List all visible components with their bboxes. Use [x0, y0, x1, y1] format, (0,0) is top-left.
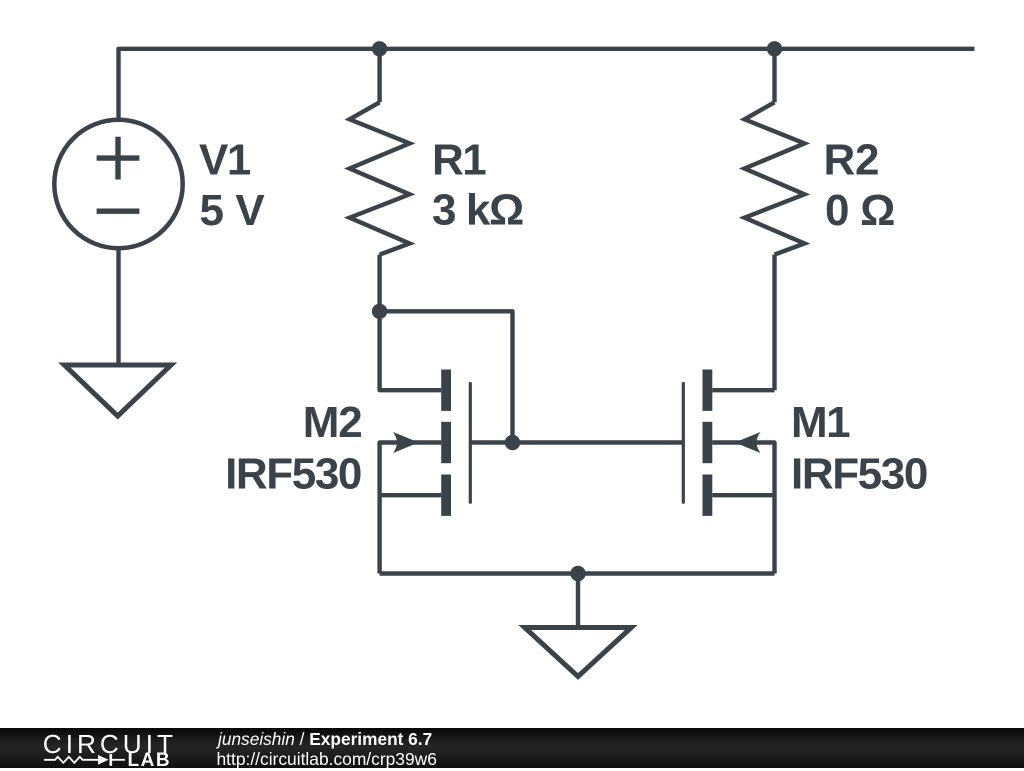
svg-text:IRF530: IRF530	[791, 450, 927, 499]
CircuitLab logo resistor-diode doodle	[0, 749, 140, 769]
resistor R2 zigzag	[745, 102, 805, 254]
wire bottom ground rail	[380, 571, 775, 575]
junction dot ground rail	[570, 566, 585, 581]
svg-text:M2: M2	[303, 398, 362, 447]
wire M2 gate to gate node	[470, 440, 512, 444]
footer title line	[218, 731, 432, 748]
transistor M1 body wire	[712, 493, 774, 497]
transistor M2 drain wire	[380, 311, 442, 390]
node junction dot R2/rail	[767, 41, 782, 56]
gate node junction dot	[505, 435, 520, 450]
LAB bold text	[128, 751, 172, 770]
wire rail to ground symbol	[576, 574, 580, 628]
node junction dot R1/rail	[372, 41, 387, 56]
ground symbol below rail	[525, 628, 632, 677]
transistor M2 body wire	[380, 493, 442, 497]
svg-text:5 V: 5 V	[200, 186, 266, 235]
wire R2 to M1 drain	[772, 255, 776, 391]
transistor M2 arrow	[393, 432, 419, 453]
wire rail to R2	[772, 49, 776, 103]
svg-text:3 kΩ: 3 kΩ	[432, 185, 523, 234]
svg-text:IRF530: IRF530	[225, 450, 361, 499]
svg-text:R1: R1	[432, 136, 486, 185]
V1 plus symbol	[97, 137, 140, 180]
transistor M1 channel bars	[703, 370, 713, 516]
transistor M2 source wire	[380, 443, 442, 574]
CircuitLab logo CIRCUIT word	[43, 731, 177, 757]
wire node A to gate node	[380, 311, 513, 442]
transistor M1 source wire	[712, 443, 774, 574]
transistor M1 gate plate	[682, 384, 685, 503]
resistor R1 zigzag	[350, 102, 410, 254]
V1 minus symbol	[97, 208, 140, 213]
footer url line	[217, 751, 437, 768]
wire R1 to node A	[377, 255, 381, 312]
wire rail to R1	[377, 49, 381, 103]
wire V1 to ground	[116, 248, 120, 365]
node A junction dot (M2 drain / R1)	[372, 304, 387, 319]
svg-text:V1: V1	[199, 136, 251, 185]
transistor M2 channel bars	[441, 370, 451, 516]
wire gate node to M1 gate	[513, 440, 684, 444]
wire V+ rail top	[119, 49, 975, 121]
transistor M2 gate plate	[469, 384, 472, 503]
transistor M1 drain wire	[712, 388, 774, 392]
footer black bar	[0, 728, 1024, 769]
voltage source V1 circle	[54, 120, 182, 248]
svg-text:M1: M1	[791, 398, 850, 447]
svg-text:0 Ω: 0 Ω	[825, 186, 895, 235]
transistor M1 arrow	[735, 432, 761, 453]
svg-text:R2: R2	[824, 136, 880, 185]
ground symbol below V1	[64, 365, 171, 416]
